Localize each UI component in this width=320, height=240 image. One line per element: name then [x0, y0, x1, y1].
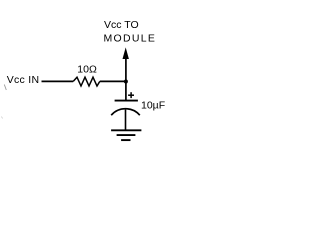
svg-text:10µF: 10µF	[141, 100, 165, 112]
svg-text:Vcc IN: Vcc IN	[7, 74, 40, 86]
svg-text:MODULE: MODULE	[104, 33, 157, 45]
svg-text:10Ω: 10Ω	[77, 64, 97, 76]
svg-text:Vcc TO: Vcc TO	[104, 19, 139, 31]
